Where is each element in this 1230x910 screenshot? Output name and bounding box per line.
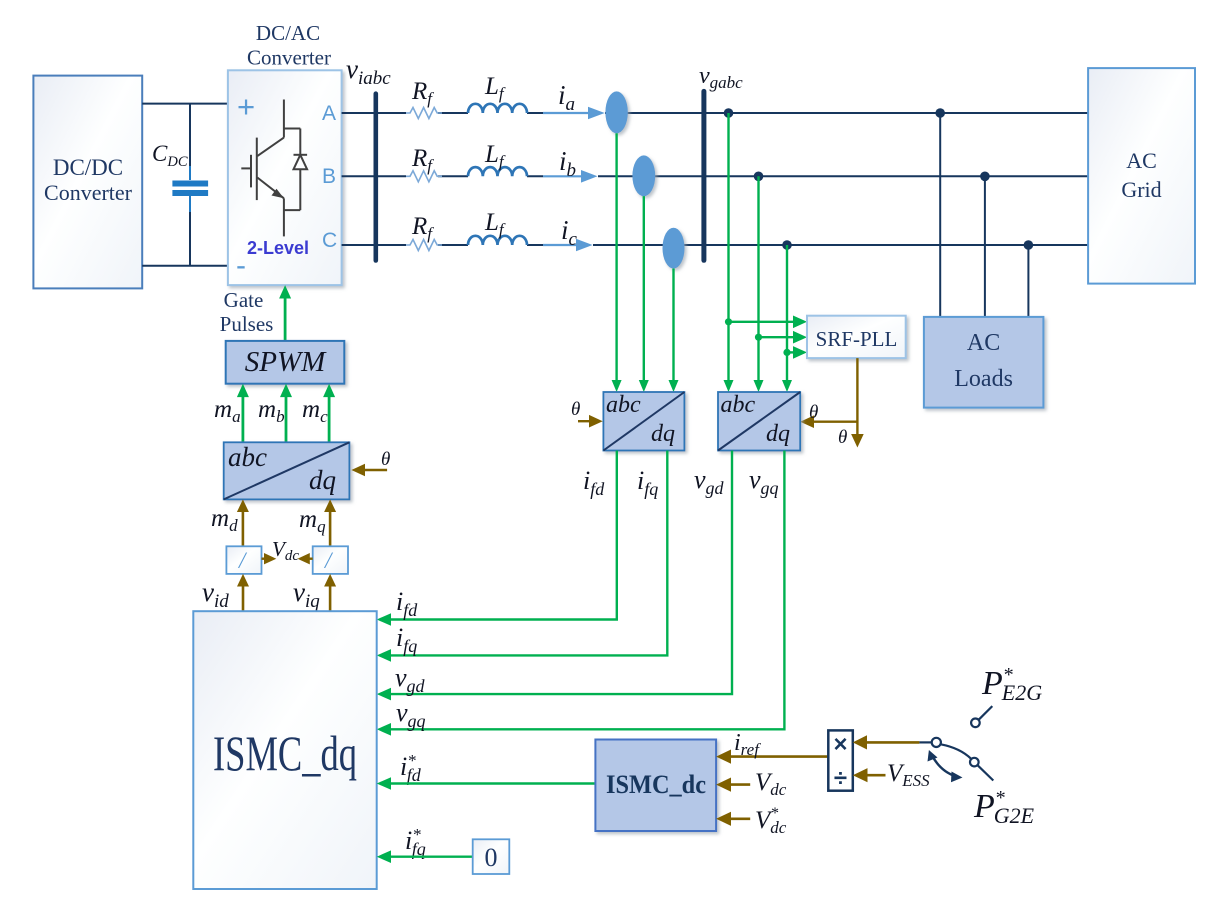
capacitor C_DC — [172, 104, 208, 266]
svg-text:θ: θ — [571, 399, 580, 420]
wire phase A — [342, 112, 1089, 114]
label Lf phase B — [484, 141, 506, 171]
wire voltage sense b (green) — [754, 176, 764, 392]
label P*_E2G — [981, 664, 1042, 705]
junction dot phase C voltage tap — [782, 240, 792, 250]
svg-text:ifq: ifq — [396, 623, 417, 656]
svg-text:dq: dq — [651, 421, 675, 447]
svg-text:Pulses: Pulses — [220, 312, 274, 336]
divider block q — [313, 546, 348, 574]
arrow V_dc into ISMC_dc — [716, 778, 750, 792]
arrow current i_c — [543, 239, 593, 252]
label v_gd (ISMC_dq input) — [395, 663, 426, 696]
bus bar v_gabc — [701, 91, 706, 260]
current sensor phase B — [632, 155, 655, 196]
label m_b — [258, 396, 285, 426]
inductor Lf phase C — [468, 236, 527, 245]
transistor IGBT with freewheeling diode (inside DC/AC) — [241, 100, 307, 237]
wire to P_E2G — [979, 706, 993, 720]
svg-text:abc: abc — [606, 392, 641, 418]
svg-text:ib: ib — [559, 146, 576, 181]
block AC Loads — [924, 317, 1044, 408]
label V_dc (ISMC_dc input) — [755, 769, 787, 799]
wire PLL input b — [759, 331, 808, 344]
svg-text:dq: dq — [766, 421, 790, 447]
svg-text:÷: ÷ — [834, 765, 847, 792]
wire load branch C — [1027, 245, 1029, 317]
svg-text:ISMC_dc: ISMC_dc — [606, 770, 706, 799]
resistor Rf phase C — [406, 240, 442, 251]
arrow current i_a — [543, 107, 605, 120]
wire PLL input c — [787, 346, 807, 359]
label Lf phase C — [484, 209, 506, 239]
svg-text:ifd: ifd — [396, 587, 418, 620]
label theta (into voltage block) — [809, 402, 818, 423]
label theta (into current block) — [571, 399, 580, 420]
svg-text:vgd: vgd — [395, 663, 426, 696]
label i_b — [559, 146, 576, 181]
svg-text:-: - — [236, 249, 246, 282]
svg-text:iref: iref — [734, 730, 761, 759]
svg-text:Rf: Rf — [411, 213, 434, 243]
wire i_fd to ISMC_dq — [377, 451, 617, 626]
wire v_id to divider d — [237, 574, 249, 611]
svg-text:AC: AC — [1126, 148, 1157, 173]
svg-text:ISMC_dq: ISMC_dq — [213, 725, 357, 781]
arrow theta into abc/dq voltage block — [800, 415, 814, 428]
svg-text:CDC: CDC — [152, 141, 188, 170]
svg-text:vgq: vgq — [749, 465, 779, 498]
label Rf phase B — [411, 145, 434, 175]
svg-text:C: C — [322, 229, 337, 252]
label C_DC — [152, 141, 188, 170]
svg-text:Converter: Converter — [44, 180, 133, 205]
wire current sense c (green) — [669, 269, 679, 393]
svg-text:viabc: viabc — [346, 54, 391, 89]
block ISMC_dc — [595, 740, 716, 832]
wire v_gq to ISMC_dq — [377, 451, 785, 736]
wire i_fd* from ISMC_dc — [377, 777, 596, 790]
svg-text:vgd: vgd — [694, 465, 725, 498]
arrow current i_b — [543, 170, 598, 183]
svg-text:Lf: Lf — [484, 141, 506, 171]
junction dot PLL tap a — [725, 318, 732, 325]
label V*_dc (ISMC_dc input) — [755, 805, 787, 837]
svg-text:md: md — [211, 505, 238, 535]
wire current sense a (green) — [612, 133, 622, 392]
current sensor phase C — [663, 228, 685, 269]
wire m_q divider to block — [324, 499, 336, 546]
svg-text:vgabc: vgabc — [699, 63, 743, 92]
label V_dc (between dividers) — [272, 537, 299, 564]
wire load branch B — [984, 176, 986, 317]
switch common node — [932, 738, 941, 747]
svg-text:2-Level: 2-Level — [247, 238, 309, 258]
block abc/dq current transform — [603, 392, 684, 451]
bus bar v_iabc — [373, 94, 378, 261]
junction dot phase B load tap — [980, 172, 990, 182]
svg-text:ifd: ifd — [583, 466, 605, 499]
svg-text:vgq: vgq — [396, 698, 426, 731]
svg-text:Lf: Lf — [484, 73, 506, 103]
switch contact E2G node — [971, 719, 980, 728]
junction dot phase B voltage tap — [754, 172, 764, 182]
svg-text:Converter: Converter — [247, 46, 331, 70]
label m_c — [302, 396, 328, 426]
svg-text:Rf: Rf — [411, 145, 434, 175]
current sensor phase A — [605, 91, 627, 133]
label Rf phase C — [411, 213, 434, 243]
wire phase B — [342, 175, 1089, 177]
svg-text:abc: abc — [228, 442, 267, 472]
label Lf phase A — [484, 73, 506, 103]
label v_gabc — [699, 63, 743, 92]
wire v_gd to ISMC_dq — [377, 451, 732, 701]
label Gate Pulses — [220, 288, 274, 336]
svg-text:ifq: ifq — [637, 466, 658, 499]
svg-text:0: 0 — [485, 843, 498, 872]
block SRF-PLL — [807, 316, 906, 358]
arrow V*_dc into ISMC_dc — [716, 812, 750, 826]
wire m_c to SPWM — [323, 384, 335, 443]
svg-text:SRF-PLL: SRF-PLL — [816, 327, 898, 351]
arrow theta into abc/dq current block — [578, 415, 603, 428]
wire v_iq to divider q — [324, 574, 336, 611]
wire i_fq* from zero block — [377, 850, 473, 863]
label m_a — [214, 396, 241, 426]
svg-text:θ: θ — [809, 402, 818, 423]
inductor Lf phase A — [468, 104, 527, 113]
wire voltage sense c (green) — [782, 245, 792, 392]
svg-text:B: B — [322, 165, 336, 188]
wire i_ref multiplier to ISMC_dc — [716, 750, 828, 764]
block multiplier-divider — [828, 730, 853, 792]
inductor Lf phase B — [468, 167, 527, 176]
label theta (down output) — [838, 427, 847, 448]
label i*_fq (ISMC_dq input) — [405, 825, 426, 859]
label i_c — [561, 215, 578, 250]
junction dot phase A load tap — [935, 108, 945, 118]
junction dot PLL tap b — [755, 334, 762, 341]
wire theta from SRF-PLL — [812, 358, 857, 436]
block AC Grid — [1088, 68, 1195, 284]
block abc/dq voltage transform — [718, 392, 800, 451]
wire switch common to multiplier — [853, 735, 932, 749]
arrow switch toggle (curved double head) — [928, 750, 963, 782]
svg-text:Gate: Gate — [224, 288, 264, 312]
label i_a — [558, 80, 575, 115]
block abc/dq modulation transform — [224, 442, 350, 499]
label V_ESS — [887, 760, 930, 790]
block DC/DC Converter — [33, 76, 142, 289]
wire to P_G2E — [977, 765, 993, 780]
label m_q — [299, 506, 326, 536]
label v_gd (block output) — [694, 465, 725, 498]
wire current sense b (green) — [639, 196, 649, 392]
block SPWM — [226, 341, 345, 384]
wire phase C — [342, 244, 1089, 246]
svg-text:θ: θ — [381, 449, 390, 470]
wire m_a to SPWM — [237, 384, 249, 443]
svg-text:+: + — [237, 89, 255, 124]
block DC/AC Converter (2-Level) — [228, 21, 342, 285]
wire i_fq to ISMC_dq — [377, 451, 668, 662]
junction dot phase C load tap — [1024, 240, 1034, 250]
svg-text:AC: AC — [967, 330, 1000, 356]
svg-text:ia: ia — [558, 80, 575, 115]
svg-text:θ: θ — [838, 427, 847, 448]
label v_iabc — [346, 54, 391, 89]
label v_id — [202, 577, 229, 612]
wire m_d divider to block — [237, 499, 249, 546]
label v_iq — [293, 577, 320, 612]
wire DC bus bottom — [142, 265, 228, 267]
label i*_fd (ISMC_dq input) — [400, 751, 422, 785]
junction dot PLL tap c — [783, 349, 790, 356]
resistor Rf phase B — [406, 171, 442, 182]
arrow V_ESS into divider — [853, 768, 886, 782]
block zero constant — [473, 839, 510, 874]
label P*_G2E — [973, 787, 1035, 828]
switch contact G2E node — [970, 758, 979, 767]
svg-text:Grid: Grid — [1121, 177, 1161, 202]
svg-text:Vdc: Vdc — [272, 537, 299, 564]
resistor Rf phase A — [406, 108, 442, 119]
svg-text:A: A — [322, 102, 336, 125]
label theta (into modulation block) — [381, 449, 390, 470]
svg-text:i*fd: i*fd — [400, 751, 422, 785]
svg-text:mq: mq — [299, 506, 326, 536]
svg-text:V*dc: V*dc — [755, 805, 787, 837]
label m_d — [211, 505, 238, 535]
label i_fq (ISMC_dq input) — [396, 623, 417, 656]
wire gate pulses SPWM to converter (green) — [279, 285, 291, 341]
label i_fq (block output) — [637, 466, 658, 499]
junction dot phase A voltage tap — [724, 108, 734, 118]
arrow V_dc into divider q — [298, 553, 313, 564]
svg-text:Lf: Lf — [484, 209, 506, 239]
arrow V_dc into divider d — [262, 553, 277, 564]
wire PLL input a — [729, 316, 808, 329]
label v_gq (ISMC_dq input) — [396, 698, 426, 731]
label v_gq (block output) — [749, 465, 779, 498]
svg-text:viq: viq — [293, 577, 320, 612]
svg-text:vid: vid — [202, 577, 229, 612]
label Rf phase A — [411, 78, 434, 108]
svg-text:dq: dq — [309, 465, 336, 495]
arrow theta output down — [851, 434, 864, 448]
svg-text:Loads: Loads — [954, 366, 1013, 392]
svg-text:mc: mc — [302, 396, 328, 426]
wire DC bus top — [142, 103, 228, 105]
label i_ref — [734, 730, 761, 759]
wire voltage sense a (green) — [724, 113, 734, 392]
label i_fd (block output) — [583, 466, 605, 499]
svg-text:VESS: VESS — [887, 760, 930, 790]
svg-text:DC/DC: DC/DC — [53, 155, 123, 180]
divider block d — [226, 546, 261, 574]
block ISMC_dq — [193, 611, 376, 889]
switch moving arm to G2E contact — [941, 744, 971, 758]
label i_fd (ISMC_dq input) — [396, 587, 418, 620]
svg-text:i*fq: i*fq — [405, 825, 426, 859]
svg-text:SPWM: SPWM — [245, 346, 327, 378]
svg-text:Rf: Rf — [411, 78, 434, 108]
svg-text:DC/AC: DC/AC — [256, 21, 320, 45]
svg-text:P*G2E: P*G2E — [973, 787, 1035, 828]
svg-text:ma: ma — [214, 396, 241, 426]
svg-text:ic: ic — [561, 215, 578, 250]
svg-text:Vdc: Vdc — [755, 769, 787, 799]
wire m_b to SPWM — [280, 384, 292, 443]
svg-text:mb: mb — [258, 396, 285, 426]
svg-text:×: × — [833, 731, 847, 758]
wire load branch A — [939, 113, 941, 317]
arrow theta into modulation block — [351, 464, 387, 477]
svg-text:abc: abc — [721, 392, 756, 418]
svg-text:P*E2G: P*E2G — [981, 664, 1042, 705]
